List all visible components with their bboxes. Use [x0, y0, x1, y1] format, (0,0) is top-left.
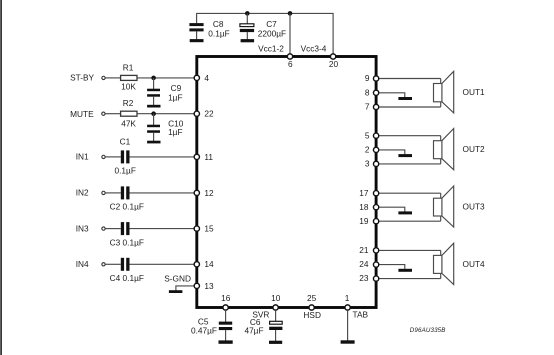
- svg-text:IN2: IN2: [76, 188, 89, 198]
- ground OUT4 speaker return: [398, 269, 412, 272]
- svg-text:10K: 10K: [121, 82, 136, 92]
- wire junction to C9: [153, 78, 155, 89]
- svg-text:12: 12: [204, 188, 214, 198]
- svg-text:C2 0.1µF: C2 0.1µF: [110, 202, 144, 212]
- wire C8 stub: [196, 13, 198, 23]
- ground S-GND: [169, 290, 183, 293]
- speaker OUT1: [434, 71, 454, 113]
- svg-text:8: 8: [365, 87, 370, 97]
- svg-text:22: 22: [204, 108, 214, 118]
- wire rail to pin 20: [332, 13, 334, 54]
- svg-text:20: 20: [329, 59, 339, 69]
- wire C3 to pin 15: [130, 228, 197, 230]
- svg-text:18: 18: [359, 202, 369, 212]
- wire pin 23 to speaker OUT4: [379, 278, 441, 280]
- pin 11: [194, 152, 213, 162]
- svg-text:ST-BY: ST-BY: [70, 72, 94, 82]
- svg-text:C9: C9: [171, 83, 182, 93]
- capacitor C10: [147, 118, 184, 141]
- ground for C9: [147, 105, 160, 108]
- resistor R2: [121, 98, 137, 128]
- svg-text:25: 25: [307, 293, 317, 303]
- node junction C9 tap: [151, 76, 156, 81]
- wire pin 17 to speaker OUT3: [379, 192, 441, 194]
- wire C4 to pin 14: [130, 263, 197, 265]
- wire junction to C10: [153, 114, 155, 125]
- svg-text:19: 19: [359, 216, 369, 226]
- pin 23: [359, 273, 378, 283]
- pin 15: [194, 224, 214, 234]
- wire ST-BY to R1: [105, 77, 120, 79]
- wire IN2 to C2: [105, 192, 121, 194]
- node ST-BY terminal: [70, 72, 105, 82]
- svg-text:Vcc3-4: Vcc3-4: [301, 44, 327, 54]
- pin 4: [194, 73, 209, 83]
- pin 25: [307, 293, 317, 310]
- ground OUT2 speaker return: [398, 154, 412, 157]
- wire pin 19 to speaker OUT3: [379, 220, 441, 222]
- capacitor C2: [110, 186, 144, 211]
- svg-text:7: 7: [365, 102, 370, 112]
- pin 22: [194, 108, 214, 118]
- pin 3: [365, 159, 379, 169]
- pin 7: [365, 102, 379, 112]
- pin 17: [359, 188, 378, 198]
- svg-text:14: 14: [204, 259, 214, 269]
- capacitor C3: [110, 222, 144, 247]
- svg-text:2: 2: [365, 145, 370, 155]
- svg-text:11: 11: [204, 152, 213, 162]
- svg-text:0.1µF: 0.1µF: [115, 165, 136, 175]
- capacitor C8: [189, 23, 203, 39]
- node IN4 terminal: [76, 259, 105, 269]
- pin 18: [359, 202, 378, 212]
- pin 6: [287, 54, 293, 69]
- svg-text:15: 15: [204, 224, 214, 234]
- svg-text:S-GND: S-GND: [164, 273, 191, 283]
- capacitor C7 electrolytic: [240, 24, 254, 40]
- capacitor C9: [147, 83, 182, 105]
- wire pin 7 to speaker OUT1: [379, 106, 441, 108]
- svg-text:IN1: IN1: [76, 152, 89, 162]
- ground for C6: [269, 341, 282, 344]
- speaker OUT2: [434, 129, 454, 170]
- pin 20: [329, 54, 339, 69]
- pin 10: [271, 293, 281, 310]
- svg-text:5: 5: [365, 130, 370, 140]
- resistor R1: [121, 62, 137, 91]
- svg-text:C3 0.1µF: C3 0.1µF: [110, 237, 144, 247]
- wire pin 8 to ground: [379, 93, 405, 97]
- svg-text:47µF: 47µF: [244, 326, 263, 336]
- wire speaker OUT3 vertical join: [440, 193, 442, 221]
- svg-text:47K: 47K: [121, 118, 136, 128]
- pin 16: [221, 293, 231, 310]
- wire speaker OUT2 vertical join: [440, 136, 442, 164]
- wire pin 5 to speaker OUT2: [379, 135, 441, 137]
- ground OUT3 speaker return: [398, 211, 412, 214]
- svg-text:R2: R2: [123, 98, 134, 108]
- speaker OUT4: [434, 243, 454, 284]
- wire rail to pin 6: [289, 13, 291, 54]
- wire IN4 to C4: [105, 263, 121, 265]
- node junction C7 rail: [245, 11, 250, 16]
- svg-text:23: 23: [359, 273, 369, 283]
- svg-text:21: 21: [359, 245, 369, 255]
- svg-text:24: 24: [359, 259, 369, 269]
- svg-text:1: 1: [345, 293, 350, 303]
- wire pin 18 to ground: [379, 207, 405, 211]
- svg-text:OUT1: OUT1: [463, 87, 486, 97]
- svg-text:4: 4: [204, 73, 209, 83]
- wire pin 24 to ground: [379, 265, 405, 269]
- capacitor C4: [110, 258, 144, 283]
- wire speaker OUT1 vertical join: [440, 79, 442, 108]
- wire pin 2 to ground: [379, 150, 405, 154]
- svg-text:3: 3: [365, 159, 370, 169]
- pin 21: [359, 245, 378, 255]
- node junction C10 tap: [151, 111, 156, 116]
- wire pin 16 to C5: [225, 310, 227, 322]
- ground for C8: [190, 39, 204, 42]
- svg-text:C1: C1: [120, 137, 131, 147]
- node IN2 terminal: [76, 188, 105, 198]
- capacitor C1: [115, 137, 136, 176]
- ground for C5: [219, 340, 233, 343]
- capacitor C6 electrolytic: [244, 317, 282, 341]
- wire speaker OUT4 vertical join: [440, 250, 442, 278]
- svg-text:TAB: TAB: [353, 310, 369, 320]
- pin 12: [194, 188, 214, 198]
- speaker OUT3: [434, 186, 454, 227]
- svg-text:HSD: HSD: [303, 310, 321, 320]
- wire R1 to pin 4: [137, 77, 197, 79]
- wire pin 13 to signal ground: [176, 286, 194, 291]
- svg-text:C4 0.1µF: C4 0.1µF: [110, 273, 144, 283]
- op-amp U1 quad power amplifier IC body: [197, 57, 376, 308]
- wire top supply rail: [196, 12, 333, 14]
- ground TAB: [341, 340, 355, 343]
- svg-text:R1: R1: [123, 62, 134, 72]
- svg-text:17: 17: [359, 188, 369, 198]
- svg-text:10: 10: [271, 293, 281, 303]
- wire IN1 to C1: [105, 156, 121, 158]
- svg-text:1µF: 1µF: [168, 127, 182, 137]
- pin 13: [194, 281, 214, 291]
- capacitor C5: [191, 316, 232, 341]
- wire C7 stub: [246, 13, 248, 24]
- svg-text:OUT2: OUT2: [463, 144, 486, 154]
- wire pin 21 to speaker OUT4: [379, 249, 441, 251]
- node IN3 terminal: [76, 223, 105, 233]
- pin 24: [359, 259, 378, 269]
- svg-text:IN4: IN4: [76, 259, 89, 269]
- svg-text:D96AU335B: D96AU335B: [410, 327, 446, 334]
- ground for C7: [241, 39, 255, 42]
- wire pin 9 to speaker OUT1: [379, 78, 441, 80]
- pin 14: [194, 259, 214, 269]
- svg-text:13: 13: [204, 281, 214, 291]
- svg-text:OUT4: OUT4: [463, 259, 486, 269]
- wire MUTE to R2: [105, 113, 121, 115]
- svg-text:6: 6: [288, 59, 293, 69]
- svg-text:0.47µF: 0.47µF: [191, 326, 217, 336]
- pin 1: [345, 293, 350, 310]
- svg-text:MUTE: MUTE: [70, 109, 94, 119]
- pin 5: [365, 130, 379, 140]
- node IN1 terminal: [76, 152, 105, 162]
- svg-text:9: 9: [365, 73, 370, 83]
- svg-text:16: 16: [221, 293, 231, 303]
- label C7 value: [258, 19, 286, 38]
- wire R2 to pin 22: [137, 113, 197, 115]
- wire IN3 to C3: [105, 228, 121, 230]
- ground for C10: [147, 141, 160, 144]
- node junction pin6 branch: [288, 11, 293, 16]
- wire pin 1 TAB to ground: [347, 310, 349, 340]
- pin 8: [365, 87, 379, 97]
- svg-text:IN3: IN3: [76, 223, 89, 233]
- node MUTE terminal: [70, 109, 105, 119]
- svg-text:OUT3: OUT3: [463, 202, 486, 212]
- pin 19: [359, 216, 378, 226]
- svg-text:1µF: 1µF: [168, 93, 182, 103]
- wire pin 10 to C6: [275, 310, 277, 321]
- pin 9: [365, 73, 379, 83]
- label C8 value: [208, 19, 229, 38]
- wire C1 to pin 11: [130, 156, 197, 158]
- svg-text:2200µF: 2200µF: [258, 28, 286, 38]
- pin 2: [365, 145, 379, 155]
- svg-text:Vcc1-2: Vcc1-2: [258, 44, 284, 54]
- wire C2 to pin 12: [130, 192, 197, 194]
- ground OUT1 speaker return: [398, 97, 412, 100]
- svg-text:0.1µF: 0.1µF: [208, 28, 229, 38]
- wire pin 3 to speaker OUT2: [379, 163, 441, 165]
